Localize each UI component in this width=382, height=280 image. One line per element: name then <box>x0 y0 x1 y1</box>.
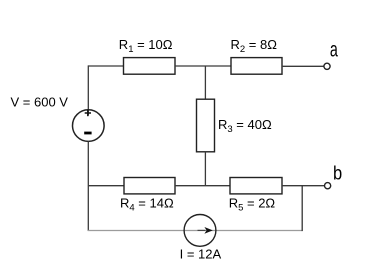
wire bottom-left horizontal <box>88 185 124 187</box>
wire bottom-right to terminal b <box>282 185 324 187</box>
wire R3 branch upper <box>204 66 206 100</box>
wire R3 branch lower <box>204 152 206 186</box>
resistor R1 <box>124 58 176 75</box>
terminal a node circle <box>324 63 330 69</box>
svg-text:b: b <box>333 163 342 184</box>
resistor R5 <box>230 178 282 194</box>
wire left rail upper (into + of source) <box>87 65 89 115</box>
svg-text:a: a <box>330 38 338 61</box>
minus sign of source <box>84 132 91 135</box>
svg-text:R2 = 8Ω: R2 = 8Ω <box>231 37 278 55</box>
resistor R3 <box>197 99 215 152</box>
voltage source V circle <box>73 110 105 142</box>
wire top-right to terminal a <box>282 65 324 67</box>
svg-text:R4 = 14Ω: R4 = 14Ω <box>120 196 174 214</box>
plus sign of source <box>85 112 91 114</box>
svg-text:R5 = 2Ω: R5 = 2Ω <box>229 196 276 214</box>
resistor R4 <box>124 178 175 194</box>
terminal b node circle <box>325 183 331 189</box>
wire left rail lower <box>87 141 89 231</box>
svg-text:V = 600 V: V = 600 V <box>11 95 69 110</box>
wire bottom loop horizontal (grey) <box>88 230 303 232</box>
svg-text:R1 = 10Ω: R1 = 10Ω <box>119 37 173 55</box>
wire top-left horizontal <box>88 65 124 67</box>
current source I circle <box>184 215 216 247</box>
resistor R2 <box>231 58 282 75</box>
wire bottom-middle horizontal <box>175 185 230 187</box>
current arrow <box>198 229 206 231</box>
wire right drop <box>301 186 303 231</box>
svg-text:R3 = 40Ω: R3 = 40Ω <box>218 117 272 135</box>
wire top-middle horizontal <box>175 65 231 67</box>
svg-text:I = 12A: I = 12A <box>180 247 222 262</box>
